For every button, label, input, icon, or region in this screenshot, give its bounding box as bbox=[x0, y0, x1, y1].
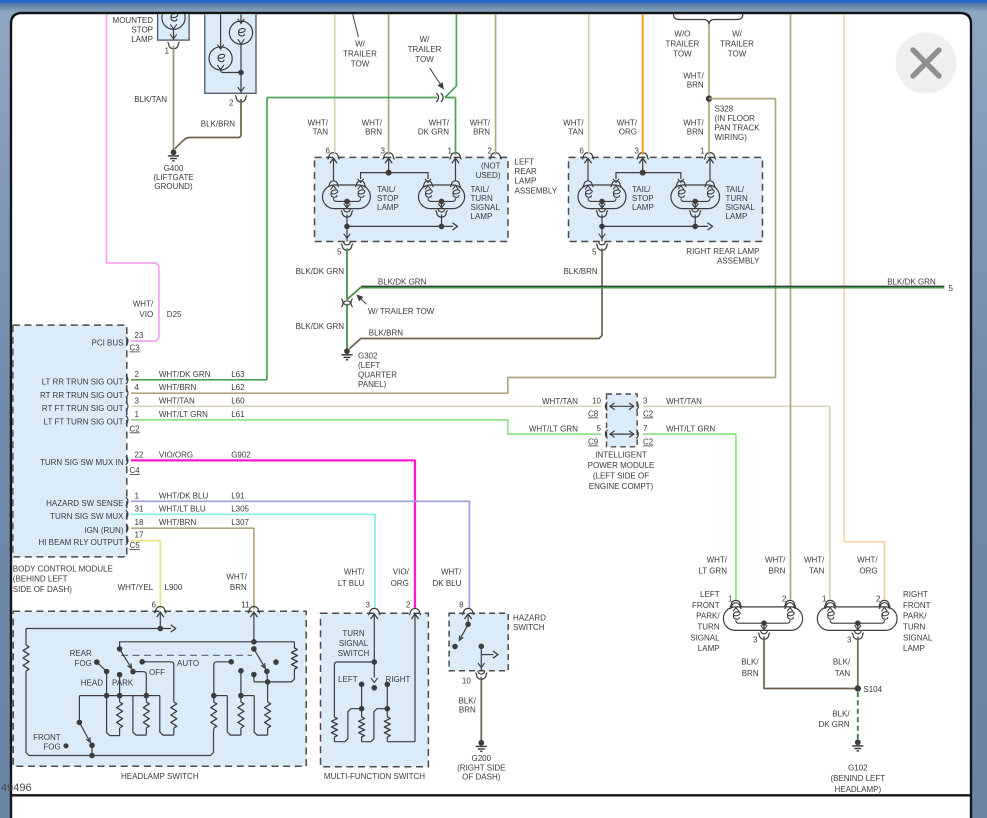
svg-text:2: 2 bbox=[876, 595, 881, 604]
svg-text:TRAILER: TRAILER bbox=[720, 40, 754, 49]
svg-text:WHT/DK GRN: WHT/DK GRN bbox=[159, 370, 211, 379]
svg-text:LT RR TRUN SIG OUT: LT RR TRUN SIG OUT bbox=[42, 377, 124, 386]
pin 2 connector bbox=[409, 608, 421, 615]
svg-text:TURN: TURN bbox=[726, 194, 748, 203]
svg-text:BLK/TAN: BLK/TAN bbox=[134, 95, 167, 104]
svg-text:HEAD: HEAD bbox=[81, 679, 103, 688]
pin 3 connector bbox=[368, 608, 380, 615]
resistor ladder group 1 bbox=[79, 695, 146, 697]
svg-text:WHT/TAN: WHT/TAN bbox=[666, 397, 702, 406]
svg-text:FRONT: FRONT bbox=[692, 601, 720, 610]
svg-text:WHT/: WHT/ bbox=[133, 300, 154, 309]
tail/stop lamp left bbox=[323, 185, 371, 209]
svg-text:SIDE OF DASH): SIDE OF DASH) bbox=[13, 585, 72, 594]
close button bbox=[896, 33, 957, 94]
frame bottom rule bbox=[11, 794, 971, 796]
svg-text:18: 18 bbox=[135, 518, 144, 527]
svg-text:3: 3 bbox=[381, 147, 386, 156]
svg-text:BRN: BRN bbox=[459, 705, 476, 714]
hazard switch box bbox=[449, 613, 508, 671]
U channel 2 bbox=[133, 696, 146, 736]
pin 2 connector (not used) bbox=[490, 153, 502, 160]
svg-text:LAMP: LAMP bbox=[698, 644, 720, 653]
svg-text:L60: L60 bbox=[231, 396, 245, 405]
wire VIO/ORG G902 from pin 22 to multi-function switch pin 2 bbox=[131, 460, 415, 609]
pin 8 connector bbox=[462, 608, 474, 615]
svg-text:LEFT: LEFT bbox=[700, 590, 720, 599]
svg-text:2: 2 bbox=[782, 595, 787, 604]
hazard output node bbox=[479, 644, 485, 650]
svg-text:BLK/BRN: BLK/BRN bbox=[201, 120, 235, 129]
svg-text:2: 2 bbox=[406, 601, 411, 610]
svg-text:DK GRN: DK GRN bbox=[818, 720, 849, 729]
ground G102 bbox=[855, 739, 861, 745]
resistor Z6 bbox=[265, 702, 271, 728]
pin 23 PCI BUS bbox=[126, 337, 128, 345]
resistor Z_C bbox=[386, 709, 388, 717]
svg-text:W/: W/ bbox=[355, 40, 366, 49]
svg-text:W/O: W/O bbox=[674, 30, 690, 39]
svg-text:LAMP: LAMP bbox=[515, 177, 537, 186]
svg-text:6: 6 bbox=[326, 147, 331, 156]
left front park/turn signal lamp bbox=[730, 600, 742, 607]
resistor Z3 bbox=[173, 701, 175, 703]
wire BLK/BRN from left lamp pin 3 bbox=[764, 637, 858, 689]
ground G200 bbox=[478, 740, 484, 746]
resistor Z1 bbox=[119, 696, 121, 702]
lamp bulb B bbox=[240, 0, 242, 21]
pin 1 LT FT TURN SIG OUT bbox=[126, 416, 128, 424]
svg-text:TAN: TAN bbox=[835, 669, 851, 678]
svg-text:BLK/: BLK/ bbox=[458, 696, 476, 705]
svg-text:WIRING): WIRING) bbox=[715, 133, 748, 142]
svg-text:1: 1 bbox=[135, 410, 140, 419]
pin 1 right assembly bbox=[704, 153, 716, 160]
wire WHT/BRN long vertical to left front lamp pin 2 bbox=[790, 0, 792, 600]
wire BLK/TAN to G400 bbox=[173, 46, 175, 150]
svg-text:(LIFTGATE: (LIFTGATE bbox=[153, 173, 193, 182]
svg-text:LEFT: LEFT bbox=[338, 675, 358, 684]
dashed detent line bbox=[121, 654, 252, 656]
svg-text:DK BLU: DK BLU bbox=[432, 579, 461, 588]
svg-text:HEADLAMP): HEADLAMP) bbox=[834, 785, 881, 794]
tail/turn signal lamp right bbox=[671, 185, 720, 209]
ground G400 bbox=[171, 149, 177, 155]
svg-text:TRAILER: TRAILER bbox=[408, 45, 442, 54]
svg-text:C2: C2 bbox=[643, 438, 654, 447]
resistor Z4 bbox=[213, 696, 215, 702]
feed to Z6 from blade bottom bbox=[267, 682, 269, 702]
svg-text:(BEHIND LEFT: (BEHIND LEFT bbox=[13, 575, 68, 584]
svg-text:HAZARD: HAZARD bbox=[513, 614, 546, 623]
pin 3 right assembly T-split bbox=[637, 153, 649, 160]
svg-text:BLK/DK GRN: BLK/DK GRN bbox=[296, 322, 345, 331]
svg-text:1: 1 bbox=[165, 47, 170, 56]
U channel 3 bbox=[160, 696, 174, 736]
right resistor R7 bbox=[293, 642, 295, 648]
wire WHT/DK GRN with trailer tow connector bbox=[455, 0, 457, 86]
bottom junction right assembly bbox=[596, 211, 608, 218]
svg-text:BRN: BRN bbox=[742, 669, 759, 678]
svg-text:6: 6 bbox=[152, 601, 157, 610]
svg-text:SIGNAL: SIGNAL bbox=[726, 203, 756, 212]
svg-text:STOP: STOP bbox=[632, 194, 654, 203]
svg-text:C5: C5 bbox=[130, 541, 141, 550]
svg-text:WHT/BRN: WHT/BRN bbox=[159, 518, 197, 527]
body control module box bbox=[13, 325, 127, 557]
svg-text:TURN SIG SW MUX: TURN SIG SW MUX bbox=[50, 512, 124, 521]
svg-text:OFF: OFF bbox=[149, 668, 165, 677]
series chain to LEFT contact bbox=[334, 662, 374, 717]
svg-text:PARK: PARK bbox=[112, 679, 134, 688]
svg-text:G102: G102 bbox=[848, 763, 868, 772]
svg-text:1: 1 bbox=[135, 491, 140, 500]
svg-text:LEFT: LEFT bbox=[515, 158, 535, 167]
svg-text:BRN: BRN bbox=[365, 128, 382, 137]
svg-text:S104: S104 bbox=[863, 685, 882, 694]
lamp bulb A bbox=[220, 0, 222, 47]
svg-text:3: 3 bbox=[847, 635, 852, 644]
svg-text:31: 31 bbox=[135, 504, 144, 513]
svg-text:3: 3 bbox=[366, 601, 371, 610]
svg-text:LAMP: LAMP bbox=[903, 644, 925, 653]
svg-text:TRAILER: TRAILER bbox=[343, 50, 377, 59]
svg-text:WHT/: WHT/ bbox=[683, 119, 704, 128]
pin 6 connector bbox=[154, 607, 166, 614]
svg-text:FRONT: FRONT bbox=[903, 601, 931, 610]
svg-text:LAMP: LAMP bbox=[471, 212, 493, 221]
trailer tow inline connector symbol bbox=[436, 93, 438, 102]
svg-text:TRAILER: TRAILER bbox=[666, 40, 700, 49]
pin 17 HI BEAM RLY OUTPUT bbox=[126, 536, 128, 544]
feed line with arrow (pin 6 row) bbox=[26, 628, 171, 630]
svg-text:ASSEMBLY: ASSEMBLY bbox=[717, 257, 760, 266]
svg-text:RIGHT REAR LAMP: RIGHT REAR LAMP bbox=[686, 247, 759, 256]
wire to mounted stop lamp pin 1 bbox=[173, 29, 175, 40]
svg-text:TURN SIG SW MUX IN: TURN SIG SW MUX IN bbox=[40, 458, 124, 467]
svg-text:WHT/DK BLU: WHT/DK BLU bbox=[159, 491, 209, 500]
svg-text:BLK/DK GRN: BLK/DK GRN bbox=[887, 277, 936, 286]
U channel 1 bbox=[107, 696, 120, 736]
wire BLK/DK GRN from left assembly pin 5 down bbox=[346, 248, 348, 299]
wire WHT/ORG right pin3 bbox=[642, 0, 644, 155]
right front park/turn signal lamp bbox=[824, 600, 836, 607]
svg-text:WHT/: WHT/ bbox=[857, 555, 878, 564]
svg-text:SIGNAL: SIGNAL bbox=[903, 633, 933, 642]
svg-text:TOW: TOW bbox=[728, 50, 747, 59]
svg-text:3: 3 bbox=[643, 396, 648, 405]
U channel 4 bbox=[214, 695, 228, 697]
svg-text:TAN: TAN bbox=[313, 128, 329, 137]
svg-text:1: 1 bbox=[822, 595, 827, 604]
svg-text:L62: L62 bbox=[231, 383, 245, 392]
pin 3 connector, T-split bbox=[383, 153, 395, 160]
wire BLK/BRN from pin 2 to G400 bbox=[175, 99, 241, 149]
svg-text:PCI BUS: PCI BUS bbox=[91, 339, 123, 348]
svg-text:POWER MODULE: POWER MODULE bbox=[588, 461, 655, 470]
svg-text:TAIL/: TAIL/ bbox=[377, 185, 396, 194]
svg-text:REAR: REAR bbox=[515, 167, 537, 176]
svg-text:RIGHT: RIGHT bbox=[903, 590, 928, 599]
second lamp box (top) bbox=[205, 0, 256, 93]
svg-text:SWITCH: SWITCH bbox=[513, 623, 545, 632]
pin 2 LT RR TRUN SIG OUT bbox=[126, 376, 128, 384]
wire WHT/LT BLU L305 to multi-function switch pin 3 bbox=[131, 514, 375, 609]
svg-text:TOW: TOW bbox=[673, 50, 692, 59]
svg-text:WHT/: WHT/ bbox=[765, 555, 786, 564]
svg-text:LT FT TURN SIG OUT: LT FT TURN SIG OUT bbox=[44, 418, 124, 427]
svg-text:PARK/: PARK/ bbox=[903, 612, 927, 621]
svg-text:G302: G302 bbox=[358, 351, 378, 360]
svg-text:C2: C2 bbox=[130, 424, 141, 433]
svg-text:17: 17 bbox=[135, 531, 144, 540]
svg-text:WHT/: WHT/ bbox=[308, 119, 329, 128]
wire WHT/DK GRN down-left to BCM pin 2 (vertical riser) bbox=[266, 98, 268, 380]
svg-text:WHT/LT GRN: WHT/LT GRN bbox=[159, 410, 208, 419]
svg-text:(BENIND LEFT: (BENIND LEFT bbox=[830, 774, 885, 783]
svg-text:WHT/: WHT/ bbox=[429, 119, 450, 128]
hazard blade bbox=[465, 622, 471, 628]
bus line B (pin 11 row) bbox=[120, 642, 295, 649]
svg-text:10: 10 bbox=[592, 396, 601, 405]
svg-text:D25: D25 bbox=[167, 310, 182, 319]
svg-text:PARK/: PARK/ bbox=[696, 612, 720, 621]
pin 6 right assembly bbox=[582, 153, 594, 160]
svg-text:3: 3 bbox=[635, 147, 640, 156]
svg-text:L305: L305 bbox=[231, 504, 249, 513]
wire WHT/BRN pin2 bbox=[495, 0, 497, 155]
inline connector break (w/ trailer tow) bbox=[341, 299, 352, 305]
svg-text:STOP: STOP bbox=[131, 26, 153, 35]
svg-text:WHT/: WHT/ bbox=[707, 555, 728, 564]
svg-text:11: 11 bbox=[241, 601, 250, 610]
svg-text:WHT/LT BLU: WHT/LT BLU bbox=[159, 504, 206, 513]
wire WHT/BRN brace to S328 to pin 1 bbox=[708, 25, 710, 156]
svg-text:W/ TRAILER TOW: W/ TRAILER TOW bbox=[368, 307, 435, 316]
svg-text:LAMP: LAMP bbox=[377, 203, 399, 212]
svg-text:L61: L61 bbox=[231, 410, 245, 419]
wire WHT/DK GRN L63 from pin 2 bbox=[131, 379, 267, 381]
svg-text:BLK/: BLK/ bbox=[832, 710, 850, 719]
svg-text:SIGNAL: SIGNAL bbox=[471, 203, 501, 212]
svg-text:BLK/BRN: BLK/BRN bbox=[563, 267, 597, 276]
svg-text:HEADLAMP SWITCH: HEADLAMP SWITCH bbox=[121, 772, 199, 781]
pin 3 RT FT TRUN SIG OUT bbox=[126, 402, 128, 410]
svg-text:10: 10 bbox=[462, 676, 471, 685]
svg-text:INTELLIGENT: INTELLIGENT bbox=[595, 450, 647, 459]
svg-text:G902: G902 bbox=[231, 450, 251, 459]
svg-text:2: 2 bbox=[229, 99, 234, 108]
svg-text:7: 7 bbox=[643, 424, 648, 433]
svg-text:BRN: BRN bbox=[473, 128, 490, 137]
svg-text:WHT/TAN: WHT/TAN bbox=[159, 396, 195, 405]
svg-text:HI BEAM RLY OUTPUT: HI BEAM RLY OUTPUT bbox=[38, 538, 123, 547]
svg-text:SIGNAL: SIGNAL bbox=[690, 633, 720, 642]
svg-text:2: 2 bbox=[135, 370, 140, 379]
svg-text:23: 23 bbox=[135, 331, 144, 340]
svg-text:5: 5 bbox=[597, 424, 602, 433]
svg-text:WHT/YEL: WHT/YEL bbox=[118, 583, 154, 592]
svg-text:LAMP: LAMP bbox=[131, 35, 153, 44]
svg-text:WHT/: WHT/ bbox=[344, 568, 365, 577]
svg-text:C2: C2 bbox=[643, 410, 654, 419]
wire WHT/TAN right pin6 bbox=[588, 0, 590, 153]
pin 31 TURN SIG SW MUX bbox=[126, 510, 128, 518]
svg-text:L900: L900 bbox=[165, 583, 183, 592]
pin 11 connector bbox=[248, 607, 260, 614]
svg-text:(LEFT SIDE OF: (LEFT SIDE OF bbox=[593, 471, 649, 480]
svg-text:LT GRN: LT GRN bbox=[698, 567, 727, 576]
svg-text:WHT/: WHT/ bbox=[226, 572, 247, 581]
resistor Z5 bbox=[240, 696, 242, 702]
svg-text:5: 5 bbox=[337, 247, 342, 256]
headlamp switch box bbox=[13, 611, 306, 766]
svg-text:TAN: TAN bbox=[568, 128, 584, 137]
IPM row 1 pins C8/C2 arrows bbox=[605, 402, 607, 410]
svg-text:(NOT: (NOT bbox=[481, 162, 501, 171]
svg-text:IGN (RUN): IGN (RUN) bbox=[84, 526, 123, 535]
svg-text:WHT/: WHT/ bbox=[470, 119, 491, 128]
svg-text:ORG: ORG bbox=[619, 128, 637, 137]
isolated contact dot right bbox=[273, 659, 279, 665]
svg-text:1: 1 bbox=[728, 595, 733, 604]
svg-text:4: 4 bbox=[135, 383, 140, 392]
svg-text:TURN: TURN bbox=[903, 623, 925, 632]
svg-text:(LEFT: (LEFT bbox=[358, 361, 380, 370]
svg-text:VIO/ORG: VIO/ORG bbox=[159, 450, 193, 459]
pin 1 HAZARD SW SENSE bbox=[126, 497, 128, 505]
svg-text:TAIL/: TAIL/ bbox=[632, 185, 651, 194]
tail/turn signal lamp left bbox=[419, 185, 465, 209]
svg-text:ASSEMBLY: ASSEMBLY bbox=[515, 186, 558, 195]
wire WHT/VIO D25 (PCI bus) bbox=[106, 0, 158, 341]
svg-text:WHT/: WHT/ bbox=[362, 119, 383, 128]
svg-text:VIO/: VIO/ bbox=[393, 568, 410, 577]
contact feed to Z5 bbox=[238, 668, 244, 674]
svg-text:L91: L91 bbox=[231, 491, 245, 500]
svg-text:WHT/TAN: WHT/TAN bbox=[542, 397, 578, 406]
svg-text:TAN: TAN bbox=[809, 567, 825, 576]
pin 22 TURN SIG SW MUX IN bbox=[126, 456, 128, 464]
wire BLK/BRN from right assembly pin 5 to G302 bbox=[350, 248, 603, 348]
AUTO feed to Z4 bbox=[228, 659, 234, 665]
brace w/o trailer tow bbox=[674, 11, 743, 25]
wire WHT/YEL L900 to headlamp switch pin 6 bbox=[131, 541, 160, 609]
svg-text:WHT/LT GRN: WHT/LT GRN bbox=[666, 425, 715, 434]
svg-text:L307: L307 bbox=[231, 518, 249, 527]
svg-text:6: 6 bbox=[580, 147, 585, 156]
mounted stop lamp bulb bbox=[162, 6, 185, 29]
svg-text:WHT/: WHT/ bbox=[683, 72, 704, 81]
svg-text:3: 3 bbox=[135, 396, 140, 405]
mounted stop lamp box bbox=[158, 0, 190, 40]
left rotary blade bbox=[117, 646, 123, 652]
svg-text:AUTO: AUTO bbox=[177, 659, 199, 668]
resistor Z_A bbox=[331, 717, 337, 737]
svg-text:BRN: BRN bbox=[687, 81, 704, 90]
U channel 5 bbox=[241, 695, 254, 697]
svg-text:(RIGHT SIDE: (RIGHT SIDE bbox=[457, 763, 505, 772]
svg-text:G400: G400 bbox=[164, 164, 184, 173]
svg-text:HAZARD SW SENSE: HAZARD SW SENSE bbox=[46, 499, 123, 508]
turn signal blade bbox=[372, 659, 378, 665]
svg-text:REAR: REAR bbox=[70, 649, 92, 658]
svg-text:BLK/: BLK/ bbox=[833, 658, 851, 667]
svg-text:BRN: BRN bbox=[769, 567, 786, 576]
svg-text:TOW: TOW bbox=[351, 60, 370, 69]
svg-text:BLK/BRN: BLK/BRN bbox=[369, 328, 403, 337]
svg-text:MOUNTED: MOUNTED bbox=[113, 16, 154, 25]
svg-text:QUARTER: QUARTER bbox=[358, 370, 397, 379]
svg-text:RT FT TRUN SIG OUT: RT FT TRUN SIG OUT bbox=[42, 404, 124, 413]
svg-text:WHT/: WHT/ bbox=[617, 119, 638, 128]
right rear lamp assembly box bbox=[569, 157, 763, 241]
front fog switch bbox=[78, 696, 80, 723]
svg-text:22: 22 bbox=[135, 450, 144, 459]
svg-text:BODY CONTROL MODULE: BODY CONTROL MODULE bbox=[13, 565, 113, 574]
svg-text:SIGNAL: SIGNAL bbox=[339, 639, 369, 648]
svg-text:SWITCH: SWITCH bbox=[338, 649, 370, 658]
svg-text:ORG: ORG bbox=[859, 567, 877, 576]
svg-text:WHT/: WHT/ bbox=[563, 119, 584, 128]
wire WHT/BRN pin3 bbox=[388, 0, 390, 155]
svg-text:W/: W/ bbox=[420, 35, 431, 44]
wire WHT/BRN L62 from pin 4 to S328 riser bbox=[131, 99, 776, 394]
IPM row 2 pins C9/C2 arrows bbox=[605, 430, 607, 438]
svg-text:C4: C4 bbox=[130, 466, 141, 475]
splice S328 bbox=[706, 95, 712, 101]
pin 6 connector and arrow bbox=[327, 153, 339, 160]
svg-text:BRN: BRN bbox=[687, 128, 704, 137]
svg-text:PAN TRACK: PAN TRACK bbox=[715, 123, 761, 132]
svg-text:G200: G200 bbox=[472, 754, 492, 763]
svg-text:RT RR TRUN SIG OUT: RT RR TRUN SIG OUT bbox=[40, 391, 124, 400]
resistor Z_B bbox=[361, 709, 363, 717]
svg-text:FRONT: FRONT bbox=[33, 733, 61, 742]
intelligent power module box bbox=[607, 394, 638, 447]
svg-text:FOG: FOG bbox=[43, 743, 60, 752]
svg-text:LAMP: LAMP bbox=[632, 203, 654, 212]
right rotary blade bbox=[251, 646, 257, 652]
svg-text:ENGINE COMPT): ENGINE COMPT) bbox=[589, 482, 654, 491]
svg-text:TURN: TURN bbox=[697, 623, 719, 632]
svg-text:MULTI-FUNCTION SWITCH: MULTI-FUNCTION SWITCH bbox=[324, 772, 425, 781]
svg-text:GROUND): GROUND) bbox=[154, 182, 193, 191]
svg-text:BLK/DK GRN: BLK/DK GRN bbox=[296, 267, 345, 276]
wire WHT/BRN L307 to headlamp switch pin 11 bbox=[131, 528, 254, 609]
internal wires to pin 2 bbox=[240, 44, 242, 72]
wire WHT/ORG pale to right front lamp pin 2 bbox=[844, 0, 884, 600]
svg-text:FOG: FOG bbox=[74, 659, 91, 668]
svg-text:3: 3 bbox=[753, 635, 758, 644]
svg-text:LT BLU: LT BLU bbox=[338, 579, 365, 588]
wire BLK/BRN hazard to G200 bbox=[480, 677, 482, 740]
svg-text:C3: C3 bbox=[130, 344, 141, 353]
svg-text:ORG: ORG bbox=[391, 579, 409, 588]
svg-text:WHT/: WHT/ bbox=[441, 568, 462, 577]
wire BLK/TAN from right lamp pin 3 bbox=[857, 637, 859, 689]
wire WHT/DK BLU L91 from hazard switch bbox=[131, 501, 469, 609]
svg-text:TAIL/: TAIL/ bbox=[471, 185, 490, 194]
svg-text:(IN FLOOR: (IN FLOOR bbox=[715, 114, 756, 123]
ground G302 bbox=[344, 348, 350, 354]
svg-text:WHT/BRN: WHT/BRN bbox=[159, 383, 197, 392]
tail/stop lamp right bbox=[578, 185, 626, 209]
svg-text:LAMP: LAMP bbox=[726, 212, 748, 221]
svg-text:BRN: BRN bbox=[230, 583, 247, 592]
pin 4 RT RR TRUN SIG OUT bbox=[126, 389, 128, 397]
left rear lamp assembly box bbox=[315, 157, 509, 241]
